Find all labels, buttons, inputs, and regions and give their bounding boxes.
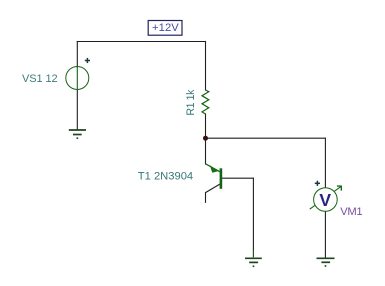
svg-text:VS1 12: VS1 12 [22,73,57,85]
svg-text:+12V: +12V [152,22,179,34]
svg-text:T1 2N3904: T1 2N3904 [138,170,193,182]
svg-text:R1 1k: R1 1k [185,89,197,116]
svg-text:V: V [319,190,331,210]
svg-text:VM1: VM1 [340,206,362,218]
